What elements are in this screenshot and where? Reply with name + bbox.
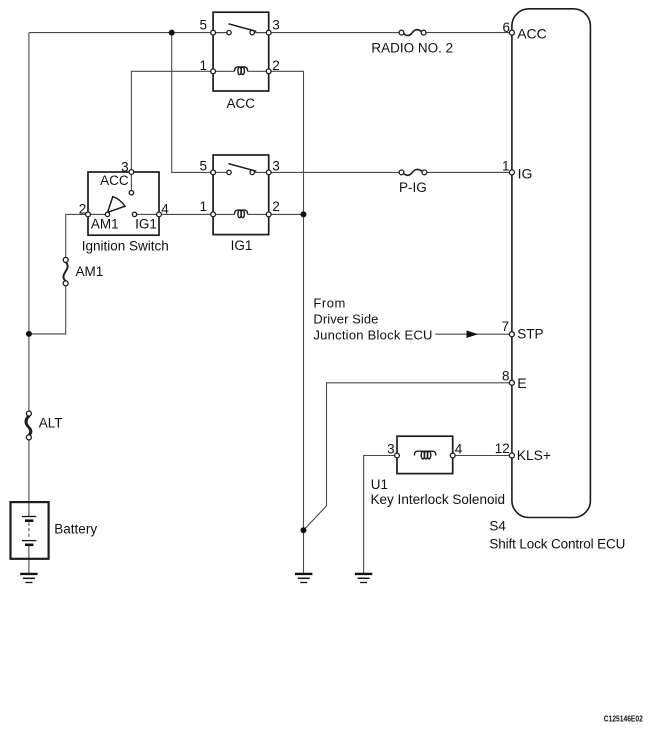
svg-text:E: E (517, 375, 526, 391)
svg-text:KLS+: KLS+ (517, 448, 551, 463)
svg-text:Shift Lock Control ECU: Shift Lock Control ECU (489, 536, 625, 551)
svg-text:Junction Block ECU: Junction Block ECU (313, 327, 432, 342)
svg-text:AM1: AM1 (91, 216, 119, 231)
svg-text:IG1: IG1 (231, 238, 253, 253)
svg-text:S4: S4 (489, 519, 506, 534)
svg-text:IG1: IG1 (135, 216, 157, 231)
svg-text:7: 7 (501, 319, 509, 334)
svg-text:U1: U1 (371, 477, 388, 492)
svg-text:5: 5 (199, 158, 207, 173)
svg-text:8: 8 (502, 368, 510, 383)
svg-text:1: 1 (199, 199, 207, 214)
svg-text:Battery: Battery (54, 522, 97, 537)
svg-text:1: 1 (502, 159, 510, 174)
svg-text:1: 1 (199, 58, 207, 73)
svg-text:12: 12 (495, 441, 510, 456)
svg-text:2: 2 (79, 201, 87, 216)
svg-text:Ignition Switch: Ignition Switch (82, 238, 169, 253)
svg-text:ACC: ACC (100, 173, 129, 188)
svg-text:Driver Side: Driver Side (313, 312, 378, 327)
svg-text:Key Interlock Solenoid: Key Interlock Solenoid (371, 492, 506, 507)
svg-text:3: 3 (387, 442, 395, 457)
svg-text:P-IG: P-IG (399, 180, 427, 195)
svg-text:AM1: AM1 (76, 264, 104, 279)
svg-text:2: 2 (272, 199, 280, 214)
svg-text:4: 4 (161, 201, 169, 216)
svg-text:3: 3 (272, 18, 280, 33)
svg-text:STP: STP (517, 327, 543, 342)
svg-text:5: 5 (199, 18, 207, 33)
svg-text:From: From (313, 295, 345, 310)
svg-text:ALT: ALT (39, 416, 63, 431)
svg-text:IG: IG (518, 165, 533, 181)
svg-text:4: 4 (455, 442, 463, 457)
svg-text:2: 2 (272, 58, 280, 73)
svg-text:C125146E02: C125146E02 (604, 714, 643, 724)
svg-text:6: 6 (502, 20, 510, 35)
svg-text:ACC: ACC (517, 26, 547, 42)
svg-text:RADIO NO. 2: RADIO NO. 2 (371, 40, 453, 55)
svg-text:3: 3 (272, 158, 280, 173)
svg-text:3: 3 (121, 159, 129, 174)
svg-text:ACC: ACC (227, 96, 256, 111)
